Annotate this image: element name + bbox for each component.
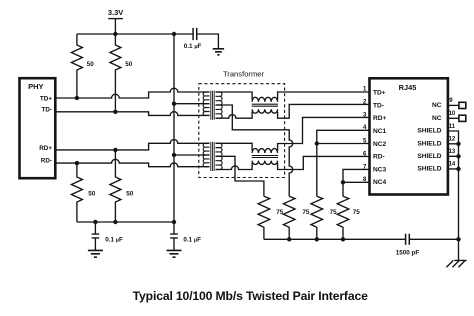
svg-text:3.3V: 3.3V bbox=[108, 8, 123, 17]
svg-text:SHIELD: SHIELD bbox=[417, 140, 441, 147]
junction node: R2 at TD- bbox=[113, 110, 117, 114]
wire: choke L1 top output to RJ45 pin 1 bbox=[278, 92, 370, 100]
svg-text:Transformer: Transformer bbox=[223, 69, 265, 78]
choke L2 core bbox=[252, 156, 278, 158]
wire: TD pair center tap from feed line bbox=[174, 103, 210, 105]
svg-text:RD-: RD- bbox=[41, 158, 52, 165]
wire: T1 secondary center tap to R6 riser (hops over choke2 output lines) bbox=[216, 105, 293, 196]
svg-text:RJ45: RJ45 bbox=[399, 83, 417, 92]
junction node: R4 at bottom rail bbox=[113, 220, 117, 224]
svg-text:0.1 µF: 0.1 µF bbox=[183, 236, 201, 243]
resistor R1 50 (top left) bbox=[71, 34, 94, 98]
wire: top 3.3V rail bbox=[77, 34, 219, 49]
svg-text:50: 50 bbox=[87, 61, 95, 68]
transformer T1 primary winding bbox=[203, 92, 209, 115]
capacitor C1 0.1uF (top) bbox=[184, 28, 202, 50]
svg-text:13: 13 bbox=[449, 149, 456, 155]
wire: bottom RD termination rail bbox=[77, 221, 174, 223]
junction node: R6 at termination rail bbox=[287, 237, 291, 241]
svg-text:TD+: TD+ bbox=[373, 90, 386, 97]
svg-text:NC: NC bbox=[432, 115, 442, 122]
RJ45 left pin numbers 1-8 bbox=[363, 86, 367, 183]
RJ45 left pin labels bbox=[373, 90, 387, 187]
choke L1 top winding bbox=[252, 97, 277, 101]
junction node: shield pin 14 bbox=[456, 167, 460, 171]
svg-text:11: 11 bbox=[449, 124, 456, 130]
capacitor C2 0.1uF (bottom left) bbox=[92, 222, 123, 250]
svg-text:RD+: RD+ bbox=[373, 115, 387, 122]
svg-text:10: 10 bbox=[449, 111, 456, 117]
choke L1 core bbox=[252, 104, 278, 106]
svg-text:TD+: TD+ bbox=[40, 95, 52, 102]
wire: choke L2 top output to RJ45 pin 3 bbox=[278, 117, 370, 150]
transformer module dashed box bbox=[199, 84, 285, 178]
transformer T2 core bbox=[211, 142, 214, 171]
transformer T2 primary winding bbox=[203, 143, 209, 166]
resistor R7 75 bbox=[311, 196, 337, 239]
capacitor C3 0.1uF (bottom of feed line) bbox=[170, 234, 201, 250]
transformer T2 secondary winding bbox=[216, 143, 223, 169]
ground G3 (below C3) bbox=[167, 250, 182, 257]
wire: TD- from PHY to transformer T1 (hop over feed line) bbox=[55, 112, 209, 116]
junction node: 3.3V at rail bbox=[113, 32, 117, 36]
svg-text:Typical 10/100 Mb/s Twisted Pa: Typical 10/100 Mb/s Twisted Pair Interfa… bbox=[133, 289, 368, 303]
wire: RD+ from PHY to transformer T2 (hop over feed line) bbox=[55, 140, 209, 150]
svg-text:SHIELD: SHIELD bbox=[417, 128, 441, 135]
choke L2 top winding bbox=[252, 149, 277, 153]
wire: center-tap feed (vertical from rail to bottom cap) bbox=[173, 34, 175, 234]
wire: RD- from PHY to transformer T2 (hops over R4 lead and feed line) bbox=[55, 159, 209, 166]
resistor R4 50 (bottom right) bbox=[110, 150, 134, 222]
wire: Bob Smith termination rail bbox=[264, 238, 459, 240]
resistor R3 50 (bottom left) bbox=[71, 163, 95, 222]
svg-text:9: 9 bbox=[449, 98, 453, 104]
wire: RD pair center tap from feed line bbox=[174, 154, 210, 156]
svg-text:50: 50 bbox=[88, 191, 96, 198]
RJ45 pin 10 NC stub and open terminal bbox=[448, 117, 459, 119]
resistor R2 50 (top right) bbox=[110, 34, 133, 112]
wire: T2 secondary center tap to R5 bbox=[216, 156, 264, 196]
RJ45 right pin labels bbox=[417, 102, 441, 173]
junction node: NC3/NC4 join bbox=[341, 180, 345, 184]
chassis ground G4 bbox=[446, 260, 466, 267]
svg-text:75: 75 bbox=[276, 209, 284, 216]
svg-text:TD-: TD- bbox=[42, 106, 53, 113]
wire: T2 secondary bottom line to choke L2 (hop over CT drop) bbox=[216, 156, 370, 169]
wire: RJ45 pin 7 NC3 to R8 riser (joins pin 8) bbox=[343, 169, 370, 196]
wire: T2 secondary top to choke L2 bbox=[216, 143, 253, 151]
svg-text:NC2: NC2 bbox=[373, 141, 387, 148]
junction node: TD center tap at feed bbox=[172, 102, 176, 106]
RJ45 pin 9 NC stub and open terminal bbox=[448, 104, 459, 106]
junction node: R1 at TD+ bbox=[75, 96, 79, 100]
svg-text:RD+: RD+ bbox=[39, 145, 52, 152]
junction node: R3 at RD- bbox=[75, 161, 79, 165]
svg-text:RD-: RD- bbox=[373, 154, 385, 161]
choke L1 bottom winding bbox=[252, 109, 277, 113]
transformer T1 core bbox=[211, 91, 214, 120]
ground G1 (top, after C1) bbox=[213, 49, 224, 55]
PHY U1 box bbox=[20, 78, 56, 178]
svg-text:12: 12 bbox=[449, 137, 456, 143]
junction node: feed line at rail bbox=[172, 32, 176, 36]
svg-text:0.1 µF: 0.1 µF bbox=[184, 43, 202, 50]
capacitor C4 1500pF bbox=[396, 234, 420, 257]
svg-text:NC3: NC3 bbox=[373, 166, 387, 173]
svg-text:PHY: PHY bbox=[28, 82, 43, 91]
svg-text:TD-: TD- bbox=[373, 102, 384, 109]
svg-text:NC1: NC1 bbox=[373, 128, 387, 135]
junction node: R8 at termination rail bbox=[341, 237, 345, 241]
svg-text:NC4: NC4 bbox=[373, 179, 387, 186]
wire: RJ45 pin 5 NC2 bbox=[317, 143, 370, 145]
svg-text:14: 14 bbox=[449, 162, 456, 168]
RJ45 right pin numbers 9-14 bbox=[449, 98, 456, 168]
wire: RJ45 pin 4 NC1 to R7 riser (joins pin 5) bbox=[317, 130, 370, 196]
junction node: shield bus at termination rail bbox=[456, 237, 460, 241]
svg-text:75: 75 bbox=[302, 209, 310, 216]
wire: RJ45 pin 8 NC4 bbox=[343, 181, 370, 183]
junction node: R7 at termination rail bbox=[315, 237, 319, 241]
svg-text:50: 50 bbox=[125, 61, 133, 68]
svg-text:NC: NC bbox=[432, 102, 442, 109]
junction node: shield pin 12 bbox=[456, 142, 460, 146]
junction node: RD center tap at feed bbox=[172, 153, 176, 157]
RJ45 J1 box bbox=[370, 78, 448, 194]
transformer T1 secondary winding bbox=[216, 92, 223, 118]
resistor R6 75 bbox=[283, 196, 310, 239]
svg-text:50: 50 bbox=[126, 191, 134, 198]
choke L2 bottom winding bbox=[252, 161, 277, 165]
svg-text:SHIELD: SHIELD bbox=[417, 166, 441, 173]
svg-text:SHIELD: SHIELD bbox=[417, 153, 441, 160]
junction node: bottom rail at feed line bbox=[172, 220, 176, 224]
ground G2 (below C2) bbox=[88, 250, 103, 257]
svg-text:0.1 µF: 0.1 µF bbox=[105, 236, 123, 243]
resistor R5 75 bbox=[258, 196, 284, 239]
3.3V supply terminal bbox=[108, 8, 123, 34]
svg-text:75: 75 bbox=[353, 209, 361, 216]
junction node: C2 tap at bottom rail bbox=[93, 220, 97, 224]
resistor R8 75 bbox=[337, 196, 360, 239]
wire: TD+ from PHY to transformer T1 (hops over R2 lead and feed line) bbox=[55, 88, 209, 98]
svg-text:75: 75 bbox=[330, 209, 338, 216]
wire: SHIELD bus pins 11-14 to chassis bbox=[448, 131, 459, 260]
wire: T1 secondary top to choke L1 bbox=[216, 92, 253, 100]
junction node: R4 at RD+ bbox=[113, 148, 117, 152]
wire: T1 secondary bottom line to choke L1 (hop over CT drop) bbox=[216, 104, 370, 118]
svg-text:1500 pF: 1500 pF bbox=[396, 249, 420, 256]
junction node: NC1/NC2 join bbox=[315, 141, 319, 145]
junction node: shield pin 13 bbox=[456, 154, 460, 158]
